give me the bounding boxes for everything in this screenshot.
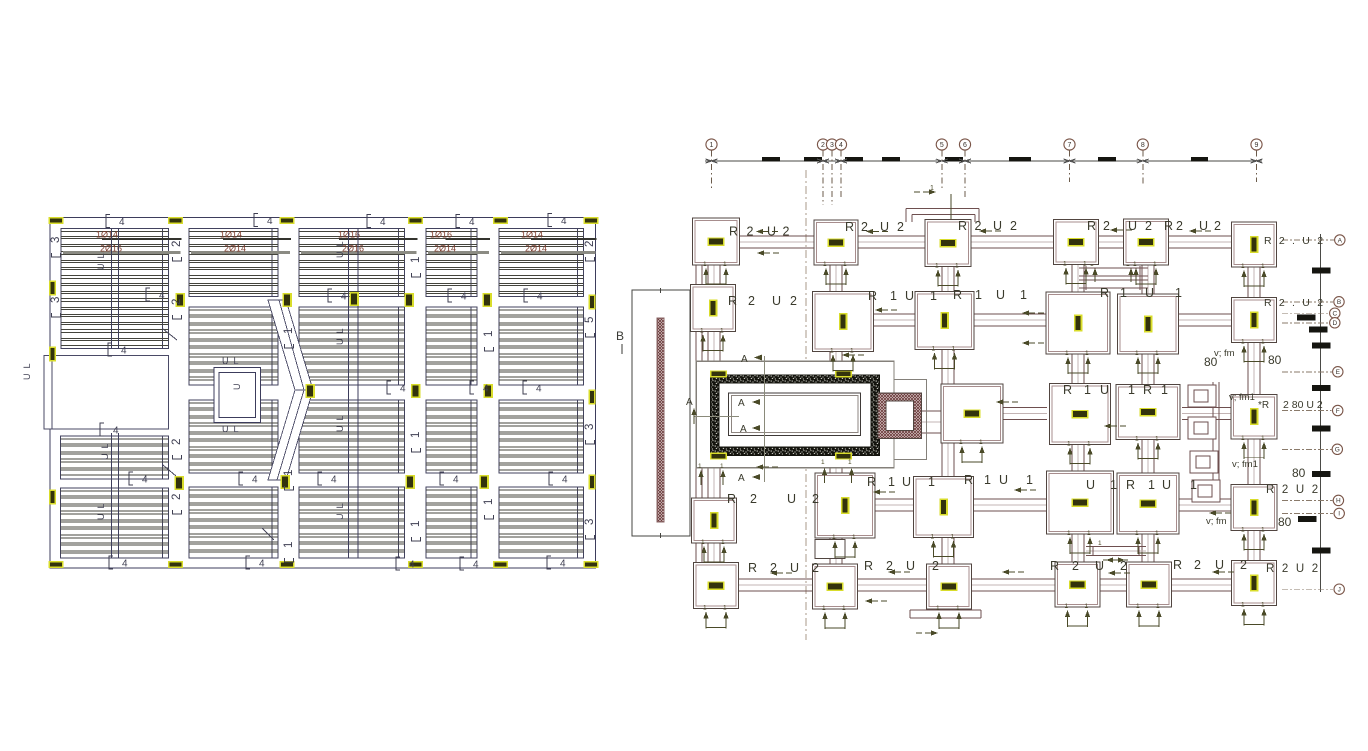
- column strip bay1 line a: [111, 229, 113, 349]
- svg-text:1: 1: [1136, 603, 1140, 610]
- svg-text:R: R: [1126, 478, 1135, 492]
- grid line 3: [831, 151, 833, 206]
- dashed arrow at 1110,230: [1110, 227, 1117, 232]
- dim arrowhead at 841: [835, 159, 847, 163]
- svg-text:A: A: [738, 398, 745, 409]
- svg-text:v; fm: v; fm: [1206, 516, 1227, 527]
- anchor arrows under footing at 1080,502.5: [1067, 537, 1072, 544]
- anchor arrows under footing at 1254,320: [1241, 346, 1246, 353]
- stirrup bracket row2 x474: [470, 381, 474, 394]
- svg-text:U: U: [1128, 219, 1137, 233]
- svg-text:R: R: [1050, 559, 1059, 573]
- dimension tick bar 804: [804, 157, 822, 162]
- stair flight inner edge lower: [277, 390, 304, 480]
- grid dash line B: [1282, 301, 1333, 303]
- column marker footing F1: [708, 581, 725, 590]
- dashed arrow at 842,355: [842, 352, 849, 357]
- svg-text:80: 80: [1292, 466, 1306, 480]
- svg-text:U: U: [993, 219, 1002, 233]
- stirrup bracket top x552: [548, 214, 552, 227]
- column marker footing F2: [827, 582, 844, 591]
- svg-text:4: 4: [380, 217, 386, 228]
- dim tick bar right 385: [1312, 385, 1331, 391]
- pit marker bottom-left: [710, 453, 727, 460]
- joist panel bay3 band1: [299, 229, 405, 297]
- svg-text:1: 1: [832, 534, 836, 541]
- svg-text:1: 1: [1026, 473, 1033, 487]
- svg-text:1: 1: [1085, 350, 1089, 357]
- stirrup bracket row3 x444: [440, 472, 444, 485]
- anchor arrows under footing at 943.5,507: [931, 541, 936, 548]
- column marker bottom 2: [168, 561, 183, 568]
- footing A1: [693, 218, 740, 265]
- column marker row2 c: [483, 384, 493, 398]
- grid line 9: [1256, 151, 1258, 183]
- column marker left 2: [49, 347, 56, 362]
- svg-text:1: 1: [935, 263, 939, 270]
- svg-text:1: 1: [703, 261, 707, 268]
- stair flight band upper: [268, 300, 313, 390]
- dashed arrow at 888,572: [888, 569, 895, 574]
- svg-text:U: U: [232, 384, 242, 391]
- joist panel bay5 band2: [499, 307, 584, 385]
- svg-text:1: 1: [1241, 527, 1245, 534]
- rotated bracket at 589,430: [586, 440, 595, 444]
- svg-text:R: R: [748, 561, 757, 575]
- column marker row2 a: [305, 384, 315, 398]
- rebar line 2 bay5: [501, 251, 596, 254]
- svg-text:2: 2: [171, 299, 183, 305]
- joist panel bay5 band4: [499, 487, 584, 558]
- svg-text:1: 1: [720, 463, 724, 470]
- connector spine x1213: [1212, 382, 1214, 498]
- svg-text:1Ø14: 1Ø14: [521, 230, 543, 240]
- svg-text:3: 3: [50, 237, 62, 243]
- svg-text:1: 1: [1153, 261, 1157, 268]
- column marker row3 b: [280, 475, 290, 489]
- svg-text:U: U: [1199, 219, 1208, 233]
- svg-text:4: 4: [400, 384, 406, 395]
- row E beam c3-c4: [1003, 407, 1047, 409]
- svg-text:1: 1: [1067, 530, 1071, 537]
- svg-text:1: 1: [931, 534, 935, 541]
- dashed arrow at 875,310: [875, 307, 882, 312]
- svg-text:4: 4: [461, 292, 467, 303]
- grid bubble 1: [706, 139, 717, 150]
- grid bubble 6: [959, 139, 970, 150]
- svg-text:1: 1: [1133, 261, 1137, 268]
- rotated bracket at 288,476: [285, 486, 294, 490]
- svg-text:2: 2: [1176, 219, 1183, 233]
- column marker row1 bb: [349, 292, 359, 306]
- svg-text:3: 3: [584, 519, 596, 525]
- svg-text:4: 4: [259, 559, 265, 570]
- svg-text:2Ø14: 2Ø14: [224, 244, 246, 254]
- svg-text:1: 1: [890, 289, 897, 303]
- svg-text:4: 4: [267, 216, 273, 227]
- column marker right 3: [589, 475, 596, 490]
- svg-text:1: 1: [1261, 263, 1265, 270]
- grid bubble F: [1333, 405, 1343, 415]
- svg-text:R 2 . U 2: R 2 . U 2: [1264, 297, 1325, 309]
- anchor arrows under footing at 1148,324: [1135, 357, 1140, 364]
- grid dash line A: [1282, 239, 1334, 241]
- column marker right 2: [589, 390, 596, 405]
- svg-text:1: 1: [959, 439, 963, 446]
- column marker footing D3: [939, 499, 948, 516]
- svg-text:4: 4: [122, 559, 128, 570]
- svg-text:2: 2: [584, 241, 596, 247]
- svg-text:1: 1: [1241, 435, 1245, 442]
- footing B4: [1046, 292, 1110, 354]
- svg-text:R: R: [845, 220, 854, 234]
- joist panel bay5 band1: [499, 229, 584, 297]
- svg-text:F: F: [1336, 408, 1340, 415]
- grid line 4: [840, 151, 842, 199]
- section B tick: [621, 344, 623, 354]
- column marker footing D1: [710, 512, 719, 529]
- pit marker top-left: [710, 370, 727, 377]
- grid dash line C: [1282, 312, 1329, 314]
- svg-text:9: 9: [1255, 142, 1259, 149]
- footing D1: [692, 498, 737, 543]
- section A arrow 1: [752, 399, 760, 405]
- svg-text:1: 1: [1063, 261, 1067, 268]
- footing F3: [927, 564, 972, 609]
- stirrup bracket bottom x113: [109, 556, 113, 569]
- joist panel bay3 band2: [299, 307, 405, 385]
- anchor arrows under footing at 713,308: [700, 335, 705, 342]
- footing B6: [1232, 298, 1277, 343]
- stair flight band lower: [268, 390, 313, 480]
- rebar line 2 bay4: [428, 251, 489, 254]
- svg-text:2: 2: [897, 220, 904, 234]
- svg-text:1: 1: [1261, 339, 1265, 346]
- svg-text:U: U: [787, 492, 796, 506]
- column marker top 1: [49, 217, 64, 224]
- footing F2: [813, 564, 858, 609]
- svg-text:3: 3: [50, 297, 62, 303]
- dashed arrow at 938,633: [931, 630, 938, 635]
- svg-text:7: 7: [1068, 142, 1072, 149]
- dim tick bar right 314.5: [1297, 315, 1316, 321]
- dashed arrow at 1189,231: [1189, 228, 1196, 233]
- footing F5: [1127, 562, 1172, 607]
- svg-text:R: R: [867, 475, 876, 489]
- break slash gap2: [262, 528, 274, 540]
- beam connector 4: [1192, 480, 1220, 502]
- anchor arrows under footing at 843,321.5: [830, 355, 835, 362]
- svg-text:R: R: [1164, 219, 1173, 233]
- grid dash line D: [1282, 322, 1329, 324]
- svg-text:1Ø16: 1Ø16: [430, 230, 452, 240]
- svg-text:4: 4: [409, 560, 415, 571]
- opening notch outside border: [44, 356, 52, 430]
- row A beam: [716, 235, 1254, 237]
- row D beam c5-c6: [1179, 498, 1232, 500]
- section B hatch strip: [657, 318, 664, 522]
- dashed arrow at 866,231.5: [866, 229, 873, 234]
- top dimension line: [705, 160, 1262, 162]
- joist panel bay2 band4: [189, 487, 278, 558]
- svg-text:v; fm: v; fm: [1214, 348, 1235, 359]
- svg-text:U: U: [996, 288, 1005, 302]
- footing E1: [941, 384, 1003, 443]
- column marker row3 c: [405, 475, 415, 489]
- column marker bottom 6: [584, 561, 599, 568]
- svg-text:2: 2: [171, 494, 183, 500]
- grid line 7: [1069, 151, 1071, 183]
- footing E3: [1116, 385, 1180, 440]
- column marker footing E4: [1250, 408, 1259, 425]
- anchor arrows below pit c1: [698, 470, 703, 477]
- grid line 2: [822, 151, 824, 206]
- svg-text:1Ø16: 1Ø16: [338, 230, 360, 240]
- row B beam c3-c4: [974, 313, 1047, 315]
- svg-text:5: 5: [584, 317, 596, 323]
- dashed arrow at 873,492: [873, 489, 880, 494]
- svg-text:U: U: [1086, 478, 1095, 492]
- dashed arrow at 1022,313: [1022, 310, 1029, 315]
- svg-text:2: 2: [750, 492, 757, 506]
- right dimension line: [1320, 234, 1322, 592]
- svg-text:4: 4: [483, 384, 489, 395]
- grid dash line F: [1282, 410, 1332, 412]
- column marker footing D5: [1140, 499, 1157, 508]
- perimeter beam left: [695, 241, 697, 586]
- svg-text:1: 1: [956, 605, 960, 612]
- grid bubble 4: [835, 139, 846, 150]
- svg-text:1: 1: [1085, 603, 1089, 610]
- stirrup bracket row1 x150: [146, 288, 150, 301]
- joist panel bay1 band3: [61, 436, 169, 479]
- rotated bracket at 488,505: [485, 515, 494, 519]
- anchor arrows under footing at 972,413.5: [959, 446, 964, 453]
- dim arrowhead at 965: [959, 159, 971, 163]
- dashed arrow at 756,467: [756, 464, 763, 469]
- svg-text:1: 1: [1083, 261, 1087, 268]
- row D beam c3-c4: [973, 498, 1047, 500]
- svg-text:1: 1: [410, 257, 422, 263]
- column marker top 4: [408, 217, 423, 224]
- svg-text:1: 1: [975, 288, 982, 302]
- svg-text:I: I: [1338, 511, 1340, 518]
- svg-text:2: 2: [748, 294, 755, 308]
- svg-text:4: 4: [537, 292, 543, 303]
- svg-text:U: U: [905, 289, 914, 303]
- footing E2: [1050, 384, 1111, 445]
- svg-text:R: R: [1063, 383, 1072, 397]
- dim tick bar right 425.5: [1312, 426, 1331, 432]
- svg-text:R: R: [868, 289, 877, 303]
- svg-text:1: 1: [1087, 441, 1091, 448]
- svg-text:4: 4: [252, 475, 258, 486]
- section A arrow top: [754, 355, 762, 361]
- svg-text:1: 1: [1261, 527, 1265, 534]
- grid bubble 8: [1137, 139, 1148, 150]
- section A arrow 2: [752, 425, 760, 431]
- svg-text:2Ø16: 2Ø16: [342, 244, 364, 254]
- grid bubble C: [1330, 308, 1340, 318]
- column 3 vertical beam: [941, 243, 943, 586]
- svg-text:2: 2: [171, 439, 183, 445]
- svg-text:1: 1: [823, 261, 827, 268]
- svg-text:U L: U L: [96, 253, 106, 270]
- svg-text:1: 1: [1020, 288, 1027, 302]
- column marker row1 d: [482, 293, 492, 307]
- svg-text:1: 1: [1084, 383, 1091, 397]
- row E beam c5-c6: [1182, 407, 1232, 409]
- svg-text:3: 3: [584, 424, 596, 430]
- column marker footing A3: [940, 239, 957, 248]
- column marker top 3: [280, 217, 295, 224]
- section B top tick: [660, 288, 662, 293]
- svg-text:R: R: [1087, 219, 1096, 233]
- svg-text:1: 1: [1261, 602, 1265, 609]
- svg-text:4: 4: [469, 217, 475, 228]
- svg-text:U L: U L: [22, 363, 32, 380]
- svg-text:U L: U L: [335, 415, 345, 432]
- rotated bracket at 589,525: [586, 535, 595, 539]
- dim tick bar right 471: [1312, 471, 1331, 477]
- footing B1: [691, 285, 736, 332]
- stair opening bay1: [52, 356, 169, 430]
- ladder beams c4-c5 lower: [1086, 546, 1146, 548]
- svg-text:R 2 U 2: R 2 U 2: [1266, 484, 1320, 496]
- break slash bay1 lower: [163, 465, 176, 476]
- anchor arrows below pit c2: [822, 468, 827, 475]
- anchor arrows under footing at 1254,507.5: [1241, 534, 1246, 541]
- svg-text:R: R: [1100, 286, 1109, 300]
- column 5 vertical beam: [1141, 242, 1143, 585]
- column marker footing D2: [841, 497, 850, 514]
- stair flight inner edge upper: [279, 300, 304, 390]
- footing B5: [1118, 294, 1179, 354]
- svg-text:B: B: [616, 329, 624, 343]
- anchor arrows under footing at 835,586.5: [822, 612, 827, 619]
- svg-text:1: 1: [710, 142, 714, 149]
- grid line 1: [711, 151, 713, 191]
- footing D6: [1231, 485, 1277, 531]
- grid bubble 9: [1251, 139, 1262, 150]
- pit inner wall outer: [729, 393, 861, 436]
- stirrup bracket row3 x553: [549, 472, 553, 485]
- column marker footing A2: [828, 238, 845, 247]
- grid bubble D: [1330, 318, 1340, 328]
- row B beam c5-c6: [1178, 313, 1232, 315]
- column marker footing B3: [940, 312, 949, 329]
- svg-text:1: 1: [283, 328, 295, 334]
- svg-text:2: 2: [821, 142, 825, 149]
- rebar line top bay3: [339, 238, 417, 240]
- column marker footing F3: [941, 582, 958, 591]
- stirrup bracket row2 x527: [523, 381, 527, 394]
- svg-text:4: 4: [839, 142, 843, 149]
- rotated bracket at 176,445: [173, 455, 182, 459]
- svg-text:2: 2: [790, 294, 797, 308]
- column marker row1 a: [175, 293, 185, 307]
- stirrup bracket row3 x243: [239, 472, 243, 485]
- joist panel bay3 band3: [299, 400, 405, 473]
- svg-text:U: U: [880, 220, 889, 234]
- svg-text:2: 2: [1103, 219, 1110, 233]
- dim arrowhead at 1069.5: [1064, 159, 1076, 163]
- anchor arrows under footing at 948,243: [935, 270, 940, 277]
- dashed arrow at 770,573: [770, 570, 777, 575]
- dim arrowhead at 711.5: [706, 159, 718, 163]
- stirrup bracket top x460: [456, 215, 460, 228]
- grid line 6: [964, 151, 966, 200]
- svg-text:R: R: [1173, 558, 1182, 572]
- rotated bracket at 288,334: [285, 344, 294, 348]
- column marker row1 b: [282, 293, 292, 307]
- footing D3: [914, 477, 974, 538]
- dimension tick bar 1191: [1191, 157, 1208, 162]
- anchor arrows under footing at 836,242.5: [823, 268, 828, 275]
- beam connector 1: [1188, 385, 1216, 407]
- column 1 vertical beam: [707, 241, 709, 586]
- svg-text:1: 1: [1135, 436, 1139, 443]
- dimension tick bar 945: [945, 157, 963, 162]
- svg-text:2: 2: [812, 561, 819, 575]
- pit extension hatch: [878, 393, 922, 439]
- svg-text:1: 1: [1120, 286, 1127, 300]
- joist panel bay2 band2: [189, 307, 278, 385]
- pit inner wall inner: [731, 396, 858, 433]
- svg-text:1: 1: [932, 346, 936, 353]
- joist panel bay4 band1: [426, 229, 477, 297]
- dim tick bar right 267.5: [1312, 268, 1331, 274]
- svg-text:1: 1: [1128, 383, 1135, 397]
- section B outer rect: [632, 290, 690, 536]
- column marker bottom 3: [280, 561, 295, 568]
- rotated bracket at 55,303: [52, 313, 61, 317]
- column marker footing A6: [1250, 236, 1259, 253]
- section line A vertical: [764, 356, 766, 482]
- svg-text:v; fm1: v; fm1: [1229, 392, 1255, 403]
- svg-text:A: A: [1338, 237, 1343, 244]
- svg-text:1: 1: [1135, 530, 1139, 537]
- svg-text:1: 1: [928, 475, 935, 489]
- svg-text:1: 1: [888, 475, 895, 489]
- svg-text:1: 1: [842, 605, 846, 612]
- pit extension inner: [886, 401, 914, 431]
- stirrup bracket bay1 x112: [108, 343, 112, 356]
- svg-text:80: 80: [1278, 515, 1292, 529]
- dim arrowhead at 941.8: [936, 159, 948, 163]
- stirrup bracket bay1 x104: [100, 423, 104, 436]
- rebar line 2 bay2: [191, 251, 290, 254]
- pit hatch band inner boundary: [719, 383, 871, 447]
- svg-text:U L: U L: [335, 241, 345, 258]
- svg-text:1: 1: [1155, 530, 1159, 537]
- offset beam stub: [950, 194, 952, 219]
- svg-text:B: B: [1337, 299, 1341, 306]
- column marker row2 b: [411, 384, 421, 398]
- dashed arrow at 1108,573: [1108, 570, 1115, 575]
- column marker footing B2: [839, 313, 848, 330]
- rebar line 2 bay1: [63, 251, 181, 254]
- footing D5: [1117, 473, 1179, 534]
- svg-text:4: 4: [473, 560, 479, 571]
- svg-text:1: 1: [1155, 350, 1159, 357]
- svg-text:1: 1: [1148, 478, 1155, 492]
- rotated bracket at 55,243: [52, 253, 61, 257]
- central opening inner: [219, 373, 256, 418]
- svg-text:A: A: [740, 424, 747, 435]
- svg-text:1: 1: [700, 328, 704, 335]
- rebar line top bay1: [102, 238, 182, 240]
